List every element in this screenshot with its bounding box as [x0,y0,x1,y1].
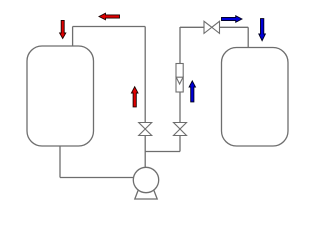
wire: flowmeter to valve V2 [179,92,181,123]
left tank T1 [27,46,94,146]
wire: top-left horizontal pipe [73,26,146,28]
arrow blue right (after valve V3) [222,16,243,23]
wire: right valve to manifold [179,136,181,152]
wire: left riser above valve V1 [144,27,146,123]
wire: pump riser [144,152,146,168]
wire: manifold horizontal [145,151,180,153]
valve V2 (right vertical bowtie) [174,123,187,136]
valve V3 (top horizontal bowtie) [204,21,220,33]
wire: left valve to manifold [144,136,146,152]
wire: left tank inlet drop [72,27,74,47]
arrow blue down (into right tank) [259,19,266,41]
valve V1 (left vertical bowtie) [139,123,152,136]
wire: pump suction horizontal [60,177,134,179]
wire: riser above flowmeter [179,27,181,64]
wire: right tank inlet drop [247,27,249,47]
arrow blue up (flowmeter riser flow) [189,81,195,102]
flowmeter FM1 [176,64,183,93]
right tank T2 [222,48,289,147]
pump P1 [133,167,158,199]
arrow red down (into left tank) [60,20,66,38]
arrow red left (top pipe flow) [99,13,120,20]
wire: top-right pipe left of valve V3 [180,26,204,28]
wire: top-right pipe right of valve V3 [220,26,249,28]
arrow red up (left riser flow) [131,87,138,107]
wire: left tank outlet drop [59,146,61,178]
